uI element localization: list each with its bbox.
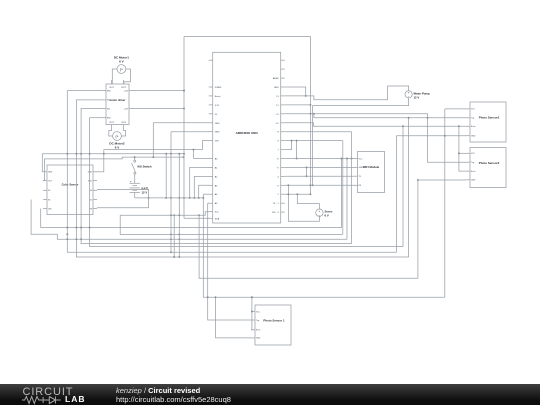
junction vcc1 tap [251,296,253,298]
junction 239 171 [170,238,172,240]
junction 234 171 [170,233,172,235]
junction bat171 [170,197,172,199]
junction F3 67 [66,238,68,240]
svg-text:S2: S2 [48,190,50,192]
wire GND3 row [418,179,466,181]
svg-text:EN2: EN2 [107,118,111,120]
photo sensor PS2 pins [466,109,476,138]
wire A0 row [194,158,210,160]
wire vert 347 [346,159,348,240]
junction tie4 [306,175,308,177]
junction jog tap [313,113,315,115]
wire A5 row [208,202,209,204]
wire M2 left lead [109,129,113,137]
wire pin4 to WIFI TX [285,175,354,177]
svg-text:Photo Sensor3: Photo Sensor3 [479,161,500,165]
color sensor pins [43,172,97,211]
svg-text:Echo: Echo [471,171,475,173]
junction gnd13 [305,95,307,97]
junction R1 67 [66,153,68,155]
svg-text:VCC: VCC [471,153,476,155]
motor M1 DC Motor1 [117,65,126,74]
wire colorOUT up R2 [43,157,184,180]
junction 458 vcc3 [458,152,460,154]
svg-text:GND: GND [359,167,364,169]
junction R1 103 [103,153,105,155]
junction F1 x81.1 [80,227,82,229]
junction 174 scl [173,214,175,216]
wire md 12V a [133,90,184,92]
wire pin11 row [285,114,466,162]
junction R1 76 [75,153,77,155]
svg-text:Kill Switch: Kill Switch [138,165,152,169]
junction 458 echo [458,125,460,127]
junction 351 vcc [351,158,353,160]
junction 417 gnd3 [417,179,419,181]
junction R2 184 [183,156,185,158]
junction GND2 [444,135,446,137]
junction 174 bus2 [173,256,175,258]
svg-text:TX→1: TX→1 [272,203,279,205]
svg-text:GND: GND [274,87,279,89]
U1 right pins [272,60,284,214]
junction 296 pin8 [296,140,298,142]
junction 171 bus1 [170,251,172,253]
wire GND row L [153,122,209,124]
wire tie 296 [296,141,298,159]
svg-text:Echo: Echo [256,330,260,332]
wire vert 445 VCC2 [444,109,446,297]
wire vert 153 [152,123,154,157]
switch SW1 Kill Switch [132,159,136,174]
wire A4 row [203,193,209,195]
junction pump RX row [312,184,314,186]
svg-text:VCC: VCC [359,158,364,160]
svg-text:IN2: IN2 [107,108,110,110]
junction bat179 [178,197,180,199]
junction md12b [183,108,185,110]
junction F1 x89.6 [89,227,91,229]
wire vert 445b [445,108,466,110]
wire VCC3 row [459,152,466,154]
footer bar [0,384,540,405]
junction 234 179 [178,233,180,235]
svg-text:VIN: VIN [215,141,219,143]
svg-text:+: + [130,179,132,183]
photo sensor PS3 pins [466,153,476,182]
wire pin12 row [285,104,311,106]
wire md 12V b [133,108,184,110]
svg-text:Trig: Trig [471,161,474,164]
svg-text:ARDUINO UNO: ARDUINO UNO [236,131,259,135]
junction 171 R1 [170,153,172,155]
junction 184 R1 [183,153,185,155]
junction loop RXrow [309,184,311,186]
wire jog to Trig2 [314,114,466,118]
wire vert 103 [103,150,105,172]
wire fan F1 [41,159,342,228]
junction loop pin12 [309,104,311,106]
junction 215 F9 [215,296,217,298]
junction md IN1 [75,238,77,240]
IC photo sensor PS3 [470,148,506,188]
junction servo bottom2 [287,193,289,195]
IC WIFI Module [358,152,385,193]
wire vert 193 [193,150,195,159]
svg-text:GND: GND [88,172,93,174]
wire vert 409 [408,118,410,257]
svg-text:Echo: Echo [471,126,475,128]
svg-text:+12V: +12V [124,90,129,92]
svg-text:SDA: SDA [215,217,220,220]
junction 291 pin8 [291,140,293,142]
wire A3 row [199,185,209,198]
wire M2 right lead [121,129,125,137]
svg-text:motor driver: motor driver [110,98,126,102]
junction tie5 [306,166,308,168]
logo circuit glyph: resistor zigzag and diode [22,395,66,405]
IC motor driver [106,84,129,125]
svg-text:Trig: Trig [471,117,474,120]
wire vert 166 [165,154,167,198]
svg-text:6 V: 6 V [115,146,120,150]
wire M1 right lead [124,69,131,84]
junction R1 89 [89,153,91,155]
wire SCL row [120,212,209,216]
wire GND hook [285,87,306,96]
junction F9 bat [202,197,204,199]
junction loop t2 [309,113,311,115]
junction F2 x67.3 [66,233,68,235]
CircuitLab logo text CIRCUIT [23,386,74,398]
wire vert 215 gnd1 [216,297,252,338]
wire colorGND right [97,171,104,173]
svg-text:GND: GND [471,136,476,138]
junction 184 md [183,90,185,92]
svg-text:(+: (+ [115,135,118,139]
wire vert 184 low [183,37,185,219]
wire bat bottom [135,197,204,199]
pump P1 Water Pump [405,91,412,99]
svg-text:OUT4: OUT4 [121,122,126,124]
wire servo top [297,194,319,209]
IC color sensor [47,165,93,215]
junction servo top [296,193,298,195]
wire SDA row [184,217,209,219]
wire row 149 [104,149,203,151]
junction 239 179 [178,238,180,240]
junction 179 R1 [178,153,180,155]
junction md12a [183,90,185,92]
wire pin2 row [285,193,311,195]
wire fan F9 [203,194,444,297]
junction F1 67 [66,227,68,229]
motor M2 DC Motor2 [113,132,122,141]
svg-text:GND: GND [215,132,220,134]
junction 409 trig [408,117,410,119]
svg-text:OUT1: OUT1 [109,87,114,89]
junction bat166 [165,197,167,199]
wire outer loop [184,37,310,195]
svg-text:12 V: 12 V [414,96,420,100]
svg-text:GND: GND [48,172,53,174]
svg-text:6 V: 6 V [325,214,329,218]
svg-text:+12V: +12V [124,108,129,110]
junction 403 echo2 [402,125,404,127]
svg-text:IOREF: IOREF [215,87,222,89]
svg-text:Photo Sensor2: Photo Sensor2 [479,116,500,120]
svg-text:VCC: VCC [471,109,476,111]
svg-text:12 V: 12 V [142,191,148,195]
svg-text:RX←0: RX←0 [272,212,279,214]
footer line 1: kenziep / Circuit revised [116,386,200,395]
junction 166 R1 [165,153,167,155]
svg-text:OUT2: OUT2 [121,87,126,89]
svg-text:VDD: VDD [88,180,93,182]
junction F9 252 [251,296,253,298]
svg-text:(+: (+ [120,68,123,72]
svg-text:Trig: Trig [256,319,259,322]
U1 left pins [209,60,222,220]
svg-text:GND: GND [215,123,220,125]
svg-text:OUT3: OUT3 [109,122,114,124]
svg-text:EN1: EN1 [107,90,111,92]
wire pin10 to Echo2 [285,123,466,127]
junction bat194 [193,197,195,199]
svg-text:Photo Sensor 1: Photo Sensor 1 [263,319,285,323]
wire row 234 scl [120,215,343,234]
wire md EN2 [90,117,102,119]
wire vcc1 [250,297,253,330]
wire vert 171 [170,132,172,253]
junction 296 vcc [296,158,298,160]
wire servo bottom [288,185,319,221]
wire pump - down [313,98,409,185]
wire kill to R2 [134,157,136,160]
wire GND2 row [396,135,466,137]
wire pin8 row [285,140,343,142]
wire pin9 row [285,131,352,133]
wire pin13 to pump + [285,86,409,100]
wire vert 207 trig1 [208,203,251,320]
wire S0 to OE loop [97,190,149,208]
svg-text:Reset: Reset [215,95,221,98]
junction F8 scl [198,214,200,216]
svg-text:S0: S0 [90,190,92,192]
svg-text:GND: GND [256,338,261,340]
photo sensor PS1 pins [251,311,261,339]
wire pin3 to WIFI RX [285,184,354,186]
wire vert 458 Echo3 [459,126,466,171]
junction 427 trig2 [427,117,429,119]
motor driver pins [102,80,133,129]
WIFI module pins [354,158,364,187]
wire vert 342 [342,141,344,235]
svg-text:S3: S3 [48,199,50,201]
svg-text:6 V: 6 V [119,59,124,63]
junction md IN2 [80,238,82,240]
junction F1 x76.4 [75,227,77,229]
svg-text:GND: GND [471,180,476,182]
wire vert 351 [351,132,353,244]
wire bus1 [67,91,396,253]
junction bat198 [198,197,200,199]
footer line 2: url [116,395,231,404]
wire md EN1 [67,90,102,92]
wire tie 306 [306,167,308,176]
wire M1 left lead [112,69,117,84]
svg-text:S1: S1 [90,199,92,201]
wire VIN hook [203,141,210,150]
junction 193 row149 [193,149,195,151]
servo M3 Servo [316,209,323,217]
junction SCL 171 [170,214,172,216]
junction bat189 [189,197,191,199]
svg-text:IN1: IN1 [107,100,110,102]
junction servo bottom [287,184,289,186]
wire vert 396 [395,136,397,253]
wire md IN1 bus2 [76,100,408,257]
junction 347 vcc [346,158,348,160]
wire A2 row [194,176,209,198]
svg-text:WIFI Module: WIFI Module [363,165,380,169]
junction bat184 [183,197,185,199]
IC photo sensor PS2 [470,102,506,142]
IC U1 ARDUINO UNO [213,52,281,223]
battery BAT1 [130,174,140,198]
wire pin6 to WIFI VCC [285,158,354,160]
wire fan F8 [199,215,418,278]
wire vert 417 GND3 [417,180,419,278]
junction vcc1 [251,311,253,313]
svg-text:3.3V: 3.3V [215,105,220,107]
junction 179 bus2 [178,256,180,258]
wire colorGND up R1 [42,154,184,172]
IC photo sensor PS1 [255,305,291,345]
wire GND2 row L [171,131,209,133]
junction R1 81 [80,153,82,155]
wire fan F2 jog [31,200,347,240]
wire fan F5 [90,118,403,247]
CircuitLab logo text LAB [65,394,85,404]
junction loop pin2 [309,193,311,195]
junction SCL 179 [178,214,180,216]
wire md IN2 F4 [81,109,351,244]
junction S0 bat [148,197,150,199]
svg-text:AREF: AREF [273,77,279,80]
svg-text:Color Sensor: Color Sensor [62,183,79,187]
wire vert 179 [178,154,180,257]
svg-text:VCC: VCC [256,311,261,313]
wire vert 174 [173,215,175,257]
junction R2 134 [134,156,136,158]
svg-text:LED: LED [48,208,52,210]
junction 207 F9 [207,296,209,298]
wire vcc1 row [250,311,253,313]
wire pin5 to WIFI GND [285,166,354,168]
wire A1 row [190,167,209,198]
junction 341 vcc [340,158,342,160]
junction 153 R2 [152,156,154,158]
wire pin7 hook [285,141,292,150]
